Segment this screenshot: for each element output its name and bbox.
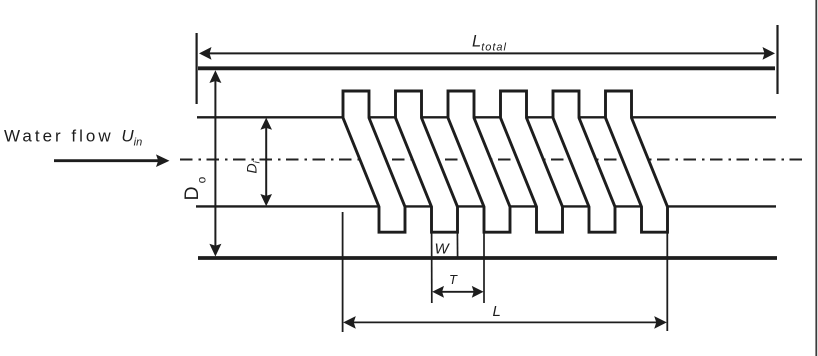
svg-text:T: T: [449, 272, 458, 287]
svg-text:Water flow Uin: Water flow Uin: [4, 127, 142, 149]
svg-text:W: W: [435, 241, 451, 258]
svg-text:L: L: [493, 303, 501, 320]
